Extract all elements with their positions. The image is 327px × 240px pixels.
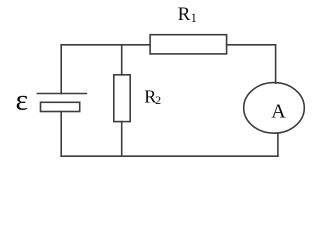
wire: R2 branch vertical, junction on top wire down to R2	[121, 45, 123, 75]
wire: left vertical, battery short plate down to bottom-left corner	[60, 112, 62, 157]
svg-text:ε: ε	[16, 84, 29, 117]
resistor R2 (box)	[114, 75, 130, 122]
svg-text:A: A	[271, 101, 286, 123]
wire: top horizontal, left corner to R1 left terminal	[61, 44, 150, 46]
wire: left vertical, top-left corner down to battery long plate	[60, 45, 62, 94]
ammeter A (circle body)	[244, 83, 305, 134]
svg-text:1: 1	[191, 11, 197, 25]
battery cell: long thin plate (EMF source top electrode)	[37, 93, 86, 95]
resistor R1 (box)	[150, 35, 227, 54]
wire: right vertical, top-right corner down to ammeter top	[275, 45, 277, 83]
wire: top horizontal, R1 right terminal to top-right corner	[227, 44, 276, 46]
wire: vertical, ammeter bottom to bottom wire	[277, 133, 279, 156]
wire: bottom horizontal, bottom-left corner to below ammeter	[61, 155, 278, 157]
svg-text:2: 2	[155, 93, 161, 107]
svg-text:R: R	[178, 4, 191, 25]
wire: R2 branch vertical, R2 bottom down to bottom wire junction	[121, 122, 123, 157]
battery cell: short thick plate drawn as rectangle (EMF source bottom electrode)	[41, 102, 80, 111]
